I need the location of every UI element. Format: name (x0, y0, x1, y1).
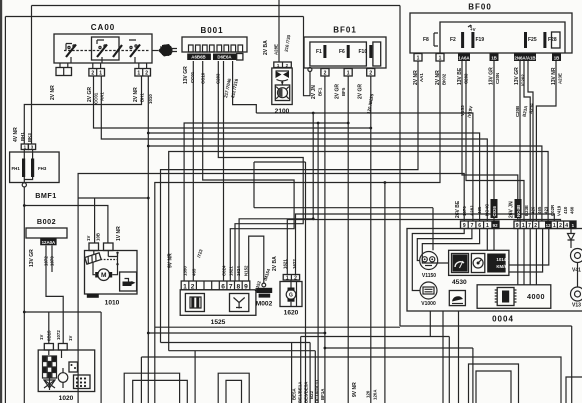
svg-text:F19: F19 (476, 37, 485, 43)
svg-text:7: 7 (528, 223, 531, 229)
svg-text:460: 460 (570, 206, 575, 214)
svg-text:1V: 1V (39, 335, 44, 340)
svg-text:2V GR: 2V GR (358, 84, 364, 99)
svg-text:F28: F28 (548, 37, 557, 43)
svg-text:9: 9 (516, 223, 519, 229)
svg-text:4: 4 (565, 223, 568, 229)
wire bottom bundle verticals (292, 122, 320, 403)
svg-text:423: 423 (544, 206, 549, 214)
svg-text:1: 1 (286, 275, 289, 281)
BF00 wire labels (413, 67, 563, 118)
svg-text:BH1: BH1 (20, 132, 25, 141)
bottom wire labels (292, 379, 378, 403)
wire B001 w4 to 1525 c6 (223, 61, 225, 281)
svg-text:C02R: C02R (550, 204, 555, 216)
svg-text:0B15: 0B15 (47, 330, 52, 341)
svg-text:1350: 1350 (183, 266, 188, 276)
svg-text:1: 1 (522, 223, 525, 229)
CA00 connector middle 2|1 (89, 63, 105, 77)
svg-text:C026: C026 (492, 205, 497, 216)
wire left border chain (5, 17, 303, 403)
svg-text:2V BA: 2V BA (263, 40, 269, 55)
wire B001 w5 to cluster c2 (233, 61, 473, 221)
BMF1 fuse unit (10, 144, 60, 200)
svg-text:1621: 1621 (282, 259, 287, 269)
svg-text:F6: F6 (339, 49, 345, 55)
wire BF01 F10 down (370, 76, 372, 403)
svg-text:9V NR: 9V NR (352, 382, 358, 397)
svg-text:C20N: C20N (495, 73, 500, 84)
0004 wire labels (455, 199, 575, 218)
svg-text:2: 2 (369, 71, 372, 77)
wire bottom bus y327 (155, 326, 400, 328)
svg-text:1: 1 (553, 223, 556, 229)
wire B001 w3 to 1525 c8 (218, 61, 303, 281)
svg-text:BF1: BF1 (318, 87, 323, 96)
svg-text:465: 465 (192, 268, 197, 276)
CA00 connector left (56, 63, 72, 76)
svg-text:F1: F1 (316, 49, 322, 55)
svg-text:9V NR: 9V NR (168, 253, 174, 268)
svg-text:1070: 1070 (462, 206, 467, 216)
svg-text:465: 465 (537, 206, 542, 214)
svg-text:A28J: A28J (470, 205, 475, 216)
svg-text:C203: C203 (464, 73, 469, 84)
svg-text:4000: 4000 (527, 292, 545, 301)
svg-text:2: 2 (559, 223, 562, 229)
1020 wire labels (39, 330, 73, 341)
BF00 connector cells (414, 54, 561, 62)
wire BF01 test circle chain (254, 162, 433, 403)
svg-text:2V JN: 2V JN (311, 85, 317, 99)
wire BF00 BK02 (155, 61, 440, 403)
0004 instrument cluster box (407, 229, 582, 324)
diode (568, 229, 575, 249)
wire bottom bus y357 (141, 357, 561, 403)
svg-text:1620: 1620 (284, 310, 299, 317)
svg-text:410: 410 (563, 206, 568, 214)
svg-text:B23E: B23E (524, 205, 529, 216)
wire w5 branch to 1525 c9 (239, 113, 315, 281)
svg-text:D6E6A: D6E6A (217, 55, 232, 60)
svg-text:/C202: /C202 (521, 74, 526, 86)
svg-text:CC10: CC10 (201, 72, 206, 84)
wire bottom bus y333 (147, 332, 326, 335)
svg-text:13V GR: 13V GR (489, 67, 495, 85)
svg-text:1B: 1B (491, 56, 497, 61)
svg-text:120A: 120A (373, 389, 378, 400)
svg-text:7: 7 (471, 223, 474, 229)
BF00 fuse box (410, 3, 572, 54)
svg-text:BF01: BF01 (333, 26, 357, 35)
svg-text:M: M (101, 272, 107, 279)
B001 connector (182, 26, 247, 60)
0004 connector cells left (461, 221, 500, 229)
wire trunk CA00 pin2 down (147, 76, 150, 403)
svg-text:FH3: FH3 (38, 166, 47, 171)
svg-text:FH1: FH1 (12, 166, 21, 171)
wire BF00 AA1 (161, 61, 419, 403)
wire BF00 V19V to cluster r2 (466, 61, 524, 221)
svg-text:2: 2 (145, 71, 148, 77)
svg-text:N152: N152 (244, 265, 249, 276)
svg-text:AA1: AA1 (100, 92, 105, 101)
svg-text:1V: 1V (86, 236, 91, 241)
svg-text:B001: B001 (200, 26, 223, 35)
svg-text:1622: 1622 (292, 259, 297, 269)
svg-text:BK02: BK02 (442, 73, 447, 85)
2100 wire labels (263, 34, 292, 55)
svg-text:1: 1 (137, 71, 140, 77)
wire BF00 V1S3 to cluster r1 (462, 61, 518, 221)
CA00 connector right 1|2 (135, 63, 151, 77)
svg-text:1: 1 (486, 223, 489, 229)
svg-text:BF1A: BF1A (320, 388, 325, 400)
svg-text:2: 2 (534, 223, 537, 229)
wire node A horizontal y198 (78, 197, 148, 199)
4000 computer box (477, 285, 551, 309)
svg-text:12: 12 (546, 223, 551, 228)
svg-text:4530: 4530 (452, 279, 467, 286)
svg-text:1010: 1010 (105, 300, 120, 307)
bottom left harness boxes (124, 373, 249, 403)
svg-text:G: G (289, 293, 293, 299)
gauge V130 (571, 287, 582, 309)
svg-text:C20B: C20B (515, 106, 520, 117)
0004 internal wires left nest (412, 229, 494, 291)
svg-text:1: 1 (417, 56, 420, 62)
CA00 ignition switch (54, 23, 152, 63)
BF01 fuse box (304, 17, 387, 96)
wire F1 branch bottom right (324, 347, 473, 403)
wire CA00 pin to BMF1 (24, 76, 141, 144)
svg-text:1A6A: 1A6A (458, 56, 470, 61)
wire 1620 pin2 to cluster (296, 214, 555, 275)
bottom right harness boxes (469, 364, 582, 403)
svg-text:1B: 1B (554, 56, 560, 61)
svg-text:DC10/DC11: DC10/DC11 (315, 379, 320, 403)
svg-text:13V NR: 13V NR (551, 67, 557, 85)
svg-text:CC01: CC01 (190, 71, 195, 83)
svg-text:V1S3: V1S3 (460, 105, 465, 116)
1620 temperature sensor (280, 275, 302, 317)
wire B001 w2 to 1525 c7 (203, 61, 294, 281)
svg-text:1072: 1072 (56, 330, 61, 340)
svg-text:435: 435 (477, 206, 482, 214)
svg-text:9: 9 (463, 223, 466, 229)
svg-text:V1000: V1000 (421, 301, 436, 307)
wire cluster exit Z chain (301, 311, 450, 403)
wire B002 to 1020 (46, 246, 63, 344)
BMF1 wire labels (13, 127, 32, 142)
4530 display unit (449, 250, 510, 286)
svg-text:A28E: A28E (274, 44, 279, 55)
wire CA00 acc to cluster c3 (94, 76, 371, 128)
svg-text:13V BE: 13V BE (457, 67, 463, 85)
1020 climate control unit (38, 344, 94, 403)
svg-text:A23E: A23E (558, 73, 563, 84)
svg-text:BE5A: BE5A (292, 387, 297, 400)
svg-text:M002: M002 (256, 301, 273, 308)
svg-text:2V NR: 2V NR (50, 85, 56, 100)
gauge V1150 (420, 252, 438, 280)
svg-text:1: 1 (99, 71, 102, 77)
svg-text:26V BE: 26V BE (455, 200, 461, 218)
wire BF01 F1 down (324, 76, 326, 403)
B001 key symbol (162, 44, 177, 56)
wire BF00 A23E to cluster r4 (536, 61, 556, 221)
wire BF00 C20N to cluster c5 (493, 61, 495, 221)
fuel gauge icon box (449, 291, 465, 306)
svg-text:F8: F8 (423, 37, 429, 43)
svg-text:4V NR: 4V NR (13, 127, 19, 142)
wire 9VNR chain (169, 152, 548, 403)
svg-text:1: 1 (439, 56, 442, 62)
svg-text:F10: F10 (359, 49, 368, 55)
svg-text:1V NR: 1V NR (116, 226, 122, 241)
svg-text:V1150: V1150 (422, 273, 436, 279)
BF01 connector cells (321, 69, 375, 77)
svg-text:BE5/BE5A: BE5/BE5A (304, 381, 309, 403)
svg-text:BH1: BH1 (140, 93, 145, 102)
1010 wire labels (86, 226, 122, 241)
wire trunk branch to cluster r5 (148, 146, 542, 221)
svg-text:CA00: CA00 (91, 23, 115, 32)
2100 cigar lighter (272, 62, 292, 115)
1620 wire labels (272, 256, 297, 271)
svg-text:2V NR: 2V NR (133, 87, 139, 102)
svg-text:10141: 10141 (496, 257, 509, 262)
M002 ground (256, 268, 273, 308)
svg-text:13V GR: 13V GR (183, 66, 189, 84)
0004 connector cells right (514, 221, 576, 229)
svg-text:2: 2 (294, 275, 297, 281)
svg-text:13V GR: 13V GR (29, 249, 35, 267)
svg-text:6: 6 (478, 223, 481, 229)
CA00 wire labels (50, 85, 153, 104)
svg-text:BMF1: BMF1 (35, 191, 57, 200)
svg-text:BF00: BF00 (468, 3, 492, 12)
svg-text:12A0A: 12A0A (42, 240, 56, 245)
wire BF00 C202 group (520, 61, 533, 221)
svg-text:V419: V419 (557, 205, 562, 216)
wire BMF1 down to bottom (23, 311, 101, 403)
CA00 key symbol (152, 45, 173, 57)
svg-text:1010: 1010 (148, 94, 153, 104)
wire B001 w1 to 1525 c2 (192, 61, 194, 281)
svg-text:1525: 1525 (211, 319, 226, 326)
svg-text:F2: F2 (450, 37, 456, 43)
B001 wire labels (183, 66, 239, 98)
BF01 wire labels (311, 84, 375, 115)
scan border left edge (0, 0, 2, 403)
svg-text:1072: 1072 (44, 256, 49, 266)
svg-text:120: 120 (366, 390, 371, 398)
svg-text:1020: 1020 (59, 395, 74, 402)
wire branch to 1010 left pin (94, 198, 96, 244)
svg-text:426: 426 (531, 206, 536, 214)
0004 internal wires right (509, 229, 549, 285)
svg-text:KM/H: KM/H (496, 264, 507, 269)
svg-text:C024: C024 (222, 265, 227, 276)
svg-text:AA1: AA1 (419, 73, 424, 82)
wire cluster exit bottom (443, 311, 459, 403)
svg-text:2V GR: 2V GR (335, 84, 341, 99)
wire 1620 pin1 to cluster (287, 220, 560, 275)
wire trunk branch to BF01 F10 (148, 127, 479, 221)
svg-text:CC01: CC01 (94, 92, 99, 104)
B002 connector (26, 217, 67, 245)
svg-text:BF5: BF5 (341, 87, 346, 96)
1525 wire labels (168, 248, 263, 292)
B002 wire labels (29, 249, 55, 267)
svg-text:C203: C203 (216, 73, 221, 84)
svg-text:2V NR: 2V NR (435, 70, 441, 85)
gauge V410 (571, 249, 582, 288)
wire BF01 F6 down (184, 76, 350, 403)
svg-text:2100: 2100 (275, 108, 290, 115)
svg-text:F25: F25 (528, 37, 537, 43)
svg-text:B22: B22 (309, 390, 314, 399)
1525 connector strip (180, 281, 256, 326)
svg-text:1070: 1070 (50, 256, 55, 266)
gauge V1000 (420, 282, 437, 307)
svg-text:0004: 0004 (492, 315, 514, 324)
svg-text:BE1/BE1A: BE1/BE1A (298, 381, 303, 403)
svg-text:NO4B: NO4B (516, 205, 521, 217)
svg-text:2V GR: 2V GR (87, 87, 93, 102)
1010 fan motor unit (85, 243, 138, 307)
svg-text:2: 2 (324, 71, 327, 77)
svg-text:10B: 10B (96, 233, 101, 241)
svg-text:2V BA: 2V BA (272, 256, 278, 271)
wire CA00 acc2 to cluster c4 (101, 76, 487, 221)
svg-text:BK3: BK3 (27, 133, 32, 142)
wire BMF1 bus to 1010 right pin (23, 187, 108, 312)
wire M002 chain (249, 236, 264, 283)
svg-text:NO4C: NO4C (485, 203, 490, 216)
svg-text:1V: 1V (68, 336, 73, 341)
svg-text:1624: 1624 (236, 266, 241, 276)
svg-text:V41: V41 (572, 268, 581, 274)
svg-text:1621: 1621 (229, 266, 234, 276)
svg-text:V13: V13 (572, 303, 581, 309)
svg-text:2N6A/A1B: 2N6A/A1B (514, 56, 535, 61)
svg-text:2: 2 (91, 71, 94, 77)
svg-text:A6B6B: A6B6B (191, 55, 205, 60)
svg-text:26V JN: 26V JN (509, 201, 515, 218)
svg-text:92: 92 (493, 223, 498, 228)
wire 2100 supply (278, 0, 280, 62)
svg-text:13V GR: 13V GR (514, 67, 520, 85)
svg-text:B002: B002 (37, 217, 56, 226)
wire 1070 bus to cluster c1 (78, 174, 464, 403)
svg-text:1: 1 (347, 71, 350, 77)
